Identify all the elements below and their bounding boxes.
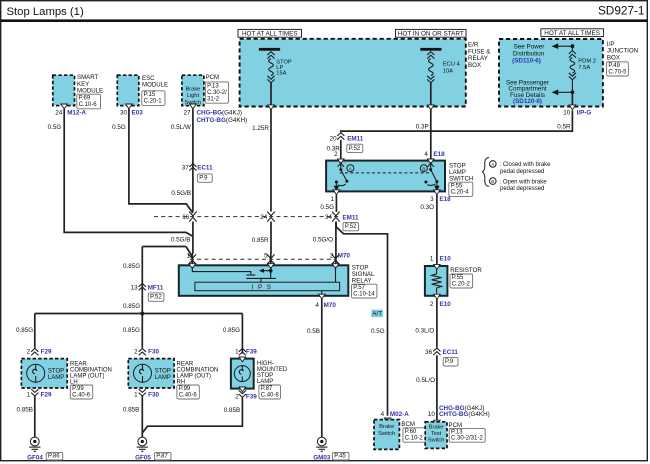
- pcm brake light switch: [182, 75, 204, 105]
- svg-text:P.52: P.52: [345, 224, 357, 230]
- svg-text:2: 2: [134, 349, 138, 356]
- svg-text:Brake: Brake: [429, 425, 444, 431]
- svg-text:Brake: Brake: [379, 424, 394, 430]
- svg-text:31-2: 31-2: [207, 96, 220, 102]
- svg-text:1: 1: [430, 256, 434, 263]
- svg-text:0.5G/B: 0.5G/B: [171, 236, 191, 243]
- resistor E10: [425, 266, 448, 296]
- svg-text:P.49: P.49: [608, 63, 620, 69]
- brake test switch (PCM input): [425, 422, 447, 449]
- svg-text:E18: E18: [439, 196, 451, 203]
- svg-text:LAMP: LAMP: [257, 379, 273, 385]
- pcm page ref P.13 C.30-2/31-2: [205, 82, 228, 103]
- svg-text:0.3P: 0.3P: [416, 123, 429, 130]
- svg-text:P.99: P.99: [179, 386, 191, 392]
- svg-text:P.9: P.9: [199, 176, 208, 182]
- brake switch (BCM input): [374, 420, 399, 450]
- svg-text:20: 20: [330, 135, 338, 142]
- svg-text:P.9: P.9: [445, 359, 454, 365]
- svg-text:BCM: BCM: [401, 421, 415, 428]
- svg-text:EC11: EC11: [197, 165, 213, 172]
- svg-text:Brake: Brake: [185, 86, 200, 92]
- fuse STOP LP 15A: [259, 48, 280, 51]
- svg-text:LAMP: LAMP: [48, 375, 64, 381]
- svg-text:B: B: [491, 179, 494, 184]
- svg-text:P.60: P.60: [405, 429, 417, 435]
- header rule: [1, 19, 647, 22]
- svg-text:: Open with brake: : Open with brake: [500, 179, 548, 185]
- svg-text:F29: F29: [41, 391, 52, 398]
- svg-text:0.5G/B: 0.5G/B: [171, 190, 191, 197]
- svg-text:0.5G: 0.5G: [320, 204, 334, 211]
- svg-text:2: 2: [430, 301, 434, 308]
- ground GF05: [138, 437, 147, 446]
- svg-text:1: 1: [330, 196, 334, 203]
- svg-text:MODULE: MODULE: [142, 82, 168, 89]
- svg-text:STOP: STOP: [155, 368, 171, 374]
- pin 27 CHG-BG: [190, 104, 197, 109]
- A/T only tag: [371, 310, 383, 318]
- svg-text:5: 5: [264, 253, 268, 260]
- svg-text:E18: E18: [433, 151, 445, 158]
- svg-text:4: 4: [381, 411, 385, 418]
- svg-text:0.85G: 0.85G: [123, 327, 140, 334]
- svg-text:Light: Light: [187, 93, 200, 99]
- svg-text:M02-A: M02-A: [390, 411, 409, 418]
- svg-text:2: 2: [330, 253, 334, 260]
- svg-text:0.3L/O: 0.3L/O: [415, 327, 434, 334]
- E/R fuse & relay box: [240, 39, 466, 107]
- pin 3 E18: [434, 190, 441, 195]
- wire branch to MF11 lamp feed: [142, 247, 192, 257]
- ground GM03: [317, 437, 326, 446]
- svg-text:C.10-2: C.10-2: [405, 435, 424, 441]
- EM11 page ref P.52 (pin 20): [347, 144, 363, 152]
- stop lamp switch E18: [326, 161, 445, 192]
- svg-text:F39: F39: [246, 394, 257, 401]
- svg-text:A/T: A/T: [372, 311, 382, 318]
- svg-text:P.52: P.52: [150, 295, 162, 301]
- svg-text:24: 24: [260, 214, 268, 221]
- svg-text:P.87: P.87: [261, 386, 273, 392]
- arrow to power distribution: [557, 45, 572, 47]
- connector MF11 pin 13: [139, 283, 146, 290]
- connector F39 pin 2: [239, 387, 246, 392]
- svg-text:GF04: GF04: [27, 455, 43, 462]
- svg-text:C.40-8: C.40-8: [261, 392, 280, 398]
- svg-text:E03: E03: [132, 110, 144, 117]
- svg-text:CHTG-BG(G4KH): CHTG-BG(G4KH): [197, 117, 248, 124]
- legend brace: [482, 158, 489, 187]
- connector EC11 pin 37: [189, 164, 196, 171]
- svg-text:GF05: GF05: [135, 455, 151, 462]
- svg-text:HOT AT ALL TIMES: HOT AT ALL TIMES: [544, 30, 600, 37]
- svg-text:pedal depressed: pedal depressed: [500, 169, 544, 175]
- stop signal relay page ref P.57 C.10-14: [352, 284, 377, 298]
- ground GM03 page ref P.45: [332, 452, 349, 460]
- stop signal relay M70: [179, 265, 348, 296]
- svg-text:0.85B: 0.85B: [224, 407, 240, 414]
- svg-text:0.85G: 0.85G: [223, 327, 240, 334]
- rear combination lamp (out) LH F29: [21, 359, 67, 388]
- svg-text:4: 4: [315, 302, 319, 309]
- svg-text:2: 2: [334, 151, 338, 158]
- svg-text:LH: LH: [70, 379, 78, 385]
- svg-text:30: 30: [120, 110, 128, 117]
- svg-text:0.5B: 0.5B: [307, 328, 320, 335]
- relay pin 2 M70: [332, 254, 340, 264]
- connector F30 pin 2: [139, 348, 146, 355]
- ground GF04: [30, 437, 39, 446]
- BCM page ref P.60 C.10-2: [403, 428, 426, 442]
- svg-text:10: 10: [563, 110, 571, 117]
- resistor page ref P.55 C.20-2: [450, 274, 473, 288]
- ground GF04 page ref P.86: [46, 452, 63, 460]
- pin 30 E03: [126, 104, 133, 109]
- connector F29 pin 1: [31, 389, 38, 396]
- svg-text:Switch: Switch: [428, 437, 444, 443]
- connector EM11 dashed line: [154, 216, 338, 218]
- pin 1 E18: [333, 190, 340, 195]
- svg-text:15A: 15A: [276, 71, 286, 77]
- power label HOT AT ALL TIMES (left): [238, 29, 302, 37]
- wire 0.5G branch to brake switch (A/T): [336, 227, 388, 416]
- svg-text:37: 37: [182, 165, 190, 172]
- switch contact A: [340, 162, 342, 169]
- svg-text:P.52: P.52: [349, 146, 361, 152]
- svg-text:P.15: P.15: [144, 92, 156, 98]
- PCM page ref P.13 C.30-2/31-2: [449, 429, 485, 443]
- smart key module M12-A: [53, 75, 75, 105]
- I/P junction box: [499, 39, 603, 107]
- svg-text:1.25R: 1.25R: [252, 125, 269, 132]
- svg-text:P.13: P.13: [207, 83, 219, 89]
- svg-text:M70: M70: [324, 302, 337, 309]
- svg-text:: Closed with brake: : Closed with brake: [500, 162, 552, 168]
- svg-text:pedal depressed: pedal depressed: [500, 186, 544, 192]
- svg-text:PDM 2: PDM 2: [578, 58, 596, 64]
- smart key module page ref P.69 C.10-6: [77, 94, 101, 109]
- switch A label circle: [347, 165, 354, 172]
- switch mechanical link: [340, 172, 431, 174]
- svg-text:RESISTOR: RESISTOR: [450, 267, 482, 274]
- stop lamp switch page ref P.55 C.20-4: [449, 182, 473, 196]
- svg-text:C.40-6: C.40-6: [72, 392, 91, 398]
- EM11 page ref P.52 (pin 34): [343, 222, 359, 230]
- svg-text:0.85B: 0.85B: [123, 407, 139, 414]
- svg-text:C.30-2/31-2: C.30-2/31-2: [451, 436, 483, 442]
- arrow to passenger fuse details: [557, 91, 572, 93]
- svg-text:EM11: EM11: [347, 135, 364, 142]
- svg-text:2: 2: [235, 394, 239, 401]
- junction EM11 pin 16: [189, 212, 197, 222]
- svg-text:RELAY: RELAY: [352, 278, 372, 285]
- esc module E03: [117, 75, 139, 105]
- svg-text:C.20-4: C.20-4: [451, 190, 470, 196]
- high mounted lamp page ref P.87 C.40-8: [259, 385, 281, 399]
- connector F29 pin 2: [31, 348, 38, 355]
- lamp feed bus wire 0.85G: [35, 313, 243, 315]
- node junction dot (PDM2 top): [571, 44, 575, 48]
- svg-text:C.20-1: C.20-1: [144, 99, 163, 105]
- svg-text:C.10-14: C.10-14: [353, 291, 375, 297]
- svg-text:10: 10: [428, 411, 436, 418]
- switch contact B: [430, 162, 432, 170]
- svg-text:SWITCH: SWITCH: [449, 176, 473, 183]
- svg-text:Distribution: Distribution: [513, 50, 545, 57]
- svg-text:SD927-1: SD927-1: [598, 4, 645, 18]
- svg-text:P.69: P.69: [79, 96, 91, 102]
- svg-text:E10: E10: [440, 256, 452, 263]
- svg-text:P.55: P.55: [452, 275, 464, 281]
- legend switch B open with brake pedal depressed: [490, 178, 497, 185]
- svg-text:C.30-2/: C.30-2/: [207, 90, 227, 96]
- svg-text:24: 24: [55, 110, 63, 117]
- svg-text:27: 27: [183, 110, 191, 117]
- svg-text:HOT AT ALL TIMES: HOT AT ALL TIMES: [242, 31, 298, 38]
- svg-text:M70: M70: [338, 253, 351, 260]
- svg-text:16: 16: [182, 214, 190, 221]
- svg-text:3: 3: [430, 196, 434, 203]
- svg-text:GM03: GM03: [313, 455, 331, 462]
- pin 2 E18: [338, 159, 345, 164]
- connector F30 pin 1: [139, 389, 146, 396]
- svg-text:BOX: BOX: [607, 54, 620, 61]
- power label HOT IN ON OR START: [396, 29, 467, 37]
- svg-text:BOX: BOX: [468, 62, 481, 69]
- svg-text:MODULE: MODULE: [77, 88, 103, 95]
- svg-text:0.85R: 0.85R: [252, 237, 269, 244]
- relay pin 4 M70: [319, 294, 326, 299]
- svg-text:B: B: [422, 166, 425, 172]
- fuse ECU 4 10A: [420, 48, 441, 51]
- svg-text:F39: F39: [246, 349, 257, 356]
- svg-text:I/P-G: I/P-G: [577, 110, 592, 117]
- relay wire pin4 inside: [321, 291, 323, 295]
- svg-text:0.85B: 0.85B: [17, 407, 33, 414]
- svg-text:1: 1: [235, 349, 239, 356]
- svg-text:C.10-6: C.10-6: [79, 102, 98, 108]
- relay pin 5 M70: [267, 254, 275, 264]
- svg-text:C.70-5: C.70-5: [608, 69, 627, 75]
- svg-text:1: 1: [134, 391, 138, 398]
- ground GF05 page ref P.87: [154, 452, 171, 460]
- svg-text:C.20-2: C.20-2: [452, 281, 471, 287]
- svg-text:P.57: P.57: [353, 285, 365, 291]
- svg-text:1: 1: [27, 391, 31, 398]
- svg-text:P.86: P.86: [48, 453, 60, 459]
- svg-text:P.87: P.87: [156, 453, 168, 459]
- svg-text:13: 13: [131, 285, 139, 292]
- svg-text:0.5G: 0.5G: [112, 124, 126, 131]
- MF11 page ref P.52: [148, 293, 164, 301]
- svg-text:PCM: PCM: [206, 74, 220, 81]
- svg-text:0.5G: 0.5G: [371, 328, 385, 335]
- high mounted stop lamp F39: [231, 359, 254, 389]
- relay pin 1 M70: [189, 254, 197, 264]
- svg-text:7.5A: 7.5A: [578, 65, 590, 71]
- svg-text:0.5G: 0.5G: [48, 124, 62, 131]
- svg-text:I P S: I P S: [251, 284, 272, 291]
- switch B label circle: [420, 165, 427, 172]
- svg-text:RH: RH: [177, 379, 186, 385]
- svg-text:0.5R: 0.5R: [557, 123, 571, 130]
- svg-text:C.40-6: C.40-6: [179, 392, 198, 398]
- svg-text:P.55: P.55: [451, 183, 463, 189]
- power label HOT AT ALL TIMES (right): [541, 29, 604, 37]
- svg-text:M12-A: M12-A: [67, 110, 86, 117]
- lamp feed bus junction dot: [140, 312, 144, 316]
- connector F39 pin 1: [239, 348, 246, 355]
- svg-text:0.3O: 0.3O: [420, 204, 434, 211]
- svg-text:0.5G/O: 0.5G/O: [313, 236, 333, 243]
- transistor (IPS output driver): [192, 267, 251, 274]
- esc module page ref P.15 C.20-1: [142, 91, 165, 106]
- rear lamp RH page ref P.99 C.40-6: [177, 385, 199, 399]
- node junction dot (PDM2 bottom): [571, 90, 575, 94]
- svg-text:CHG-BG(G4KJ): CHG-BG(G4KJ): [197, 110, 243, 117]
- svg-text:Test: Test: [431, 431, 442, 437]
- svg-text:1: 1: [186, 253, 190, 260]
- connector EC11 pin 36: [433, 348, 440, 355]
- svg-text:(SD120-8): (SD120-8): [513, 98, 542, 105]
- svg-text:F29: F29: [41, 349, 52, 356]
- svg-text:LAMP: LAMP: [155, 375, 171, 381]
- svg-text:0.85G: 0.85G: [123, 263, 140, 270]
- svg-text:0.85G: 0.85G: [123, 303, 140, 310]
- connector EM11 pin 34: [332, 212, 340, 222]
- svg-text:0.85G: 0.85G: [16, 327, 33, 334]
- svg-text:0.5L/W: 0.5L/W: [171, 124, 191, 131]
- connector EM11 pin 20: [337, 133, 344, 140]
- svg-text:CHTG-BG(G4KH): CHTG-BG(G4KH): [439, 411, 490, 418]
- wire PDM2 to pin 10: [571, 92, 573, 105]
- svg-text:EM11: EM11: [342, 215, 359, 222]
- EC11 page ref P.9: [197, 174, 212, 182]
- svg-text:Stop Lamps (1): Stop Lamps (1): [7, 6, 84, 18]
- svg-text:P.45: P.45: [334, 453, 346, 459]
- svg-text:34: 34: [325, 214, 333, 221]
- svg-text:ECU 4: ECU 4: [443, 61, 461, 67]
- svg-text:P.99: P.99: [72, 386, 84, 392]
- svg-text:4: 4: [424, 151, 428, 158]
- pin 2 E10: [434, 294, 441, 299]
- pin 4 E18: [427, 159, 434, 164]
- rear lamp LH page ref P.99 C.40-6: [70, 385, 92, 399]
- I/P junction box page ref P.49 C.70-5: [607, 62, 629, 76]
- svg-text:F30: F30: [148, 349, 159, 356]
- svg-text:MF11: MF11: [148, 285, 164, 292]
- fuse PDM 2 7.5A: [571, 46, 573, 50]
- svg-text:10A: 10A: [443, 68, 453, 74]
- svg-text:Switch: Switch: [378, 431, 395, 437]
- IPS block: [195, 282, 340, 291]
- svg-text:STOP: STOP: [48, 368, 64, 374]
- svg-text:(SD110-6): (SD110-6): [512, 58, 541, 65]
- svg-text:F30: F30: [148, 391, 159, 398]
- rear combination lamp (out) RH F30: [128, 359, 174, 388]
- svg-text:0.5L/O: 0.5L/O: [416, 377, 435, 384]
- EC11 page ref P.9 (pin 36): [443, 358, 458, 366]
- svg-text:E10: E10: [440, 301, 452, 308]
- svg-text:EC11: EC11: [443, 349, 459, 356]
- svg-text:HOT IN ON OR START: HOT IN ON OR START: [398, 31, 464, 38]
- pin 24 M12-A: [61, 104, 68, 109]
- connector EM11 pin 24: [267, 212, 275, 222]
- connector M70 dashed line: [190, 258, 336, 260]
- svg-text:2: 2: [27, 349, 31, 356]
- legend switch A closed with brake pedal depressed: [490, 161, 497, 168]
- svg-text:36: 36: [425, 349, 433, 356]
